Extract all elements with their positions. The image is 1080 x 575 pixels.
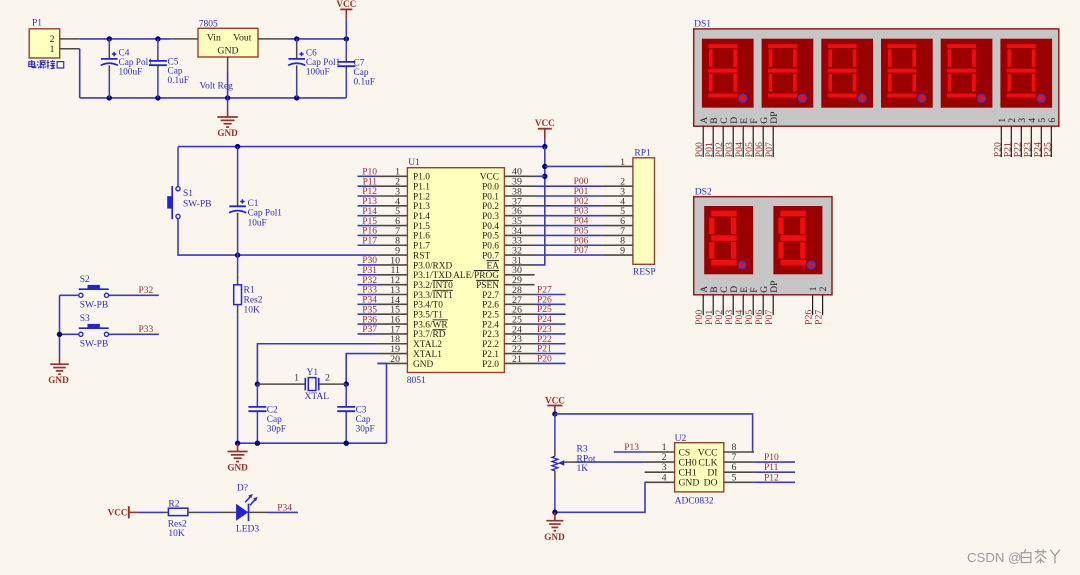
wire and net label P00 (U1 to RP1) — [535, 177, 603, 187]
svg-text:P0.4: P0.4 — [482, 222, 499, 232]
capacitor C6 — [288, 39, 341, 98]
svg-text:P1.3: P1.3 — [413, 202, 430, 212]
svg-text:P27: P27 — [814, 310, 825, 325]
U1 pin 19 XTAL1 — [377, 344, 442, 360]
svg-text:Cap: Cap — [356, 415, 371, 425]
power ground GND of regulator — [217, 98, 238, 138]
U1 pin 12 P3.2/INT0 — [377, 275, 453, 291]
switch S2 SW-PB — [79, 275, 109, 310]
label 电源接口 (power connector, drawn glyphs) — [29, 60, 64, 69]
DS1 digit 3 — [821, 39, 873, 108]
wire VCC to R2 — [138, 511, 163, 513]
svg-text:9: 9 — [620, 246, 625, 257]
svg-text:P1: P1 — [32, 19, 42, 29]
DS1 digit 4 — [881, 39, 933, 108]
power port VCC (LED row) — [108, 506, 138, 518]
wire and net label P32 (U1 left) — [358, 276, 378, 286]
switch S1 SW-PB — [167, 147, 211, 220]
svg-text:P33: P33 — [139, 325, 154, 335]
MCU U1 8051 body — [407, 158, 505, 386]
svg-text:P24: P24 — [537, 315, 552, 325]
wire and net label P12 (U2 right) — [754, 473, 795, 483]
svg-text:P35: P35 — [362, 305, 377, 315]
wire and net label P30 (U1 left) — [358, 256, 378, 266]
junction R1 on crystal ground rail — [235, 441, 240, 446]
svg-text:Cap Pol1: Cap Pol1 — [119, 58, 154, 68]
svg-text:S3: S3 — [80, 314, 90, 324]
svg-text:R3: R3 — [577, 445, 588, 455]
wire VCC to U2 pin8 — [555, 414, 754, 452]
svg-text:P0.2: P0.2 — [482, 202, 499, 212]
svg-text:P23: P23 — [537, 325, 552, 335]
svg-text:P07: P07 — [574, 246, 589, 256]
U1 pin 40 VCC — [480, 167, 535, 183]
DS1 pin A — [699, 117, 710, 157]
capacitor C4 — [101, 39, 154, 98]
svg-text:5: 5 — [732, 472, 737, 483]
wire and net label P17 — [358, 236, 378, 246]
wire and net label P26 (U1 right) — [535, 295, 566, 305]
svg-text:U2: U2 — [675, 434, 687, 444]
svg-text:0.1uF: 0.1uF — [354, 78, 375, 88]
junction C6 on Vout wire — [294, 36, 299, 41]
power port VCC (above U1) — [535, 118, 555, 146]
svg-text:P17: P17 — [362, 236, 377, 246]
svg-text:CSDN @: CSDN @ — [967, 550, 1021, 565]
svg-text:P00: P00 — [574, 177, 589, 187]
U1 pin 7 P1.6 — [377, 226, 430, 242]
junction C4 on ground rail — [107, 95, 112, 100]
DS1 pin 5 — [1037, 118, 1048, 157]
wire and net label P31 (U1 left) — [358, 266, 378, 276]
junction S3 common — [57, 332, 62, 337]
svg-text:SW-PB: SW-PB — [80, 340, 109, 350]
svg-text:P12: P12 — [362, 187, 377, 197]
svg-text:Cap: Cap — [354, 68, 369, 78]
DS1 pin 4 — [1027, 118, 1038, 157]
svg-text:Vin: Vin — [207, 33, 221, 44]
wire and net label P02 (U1 to RP1) — [535, 197, 603, 207]
svg-text:C6: C6 — [306, 48, 317, 58]
wire and net label P34 (U1 left) — [358, 296, 378, 306]
power port VCC (top) — [336, 0, 356, 39]
svg-text:VCC: VCC — [535, 118, 555, 128]
U1 pin 25 P2.4 — [482, 314, 534, 330]
U1 pin 33 P0.6 — [482, 236, 534, 252]
U1 pin 30 ALE/PROG — [453, 265, 534, 281]
DS1 digit 5 — [941, 39, 993, 108]
LED D? LED3 — [236, 483, 268, 534]
U1 pin 1 P1.0 — [377, 167, 430, 183]
U1 pin 8 P1.7 — [377, 236, 430, 252]
junction C3 on crystal ground rail — [344, 441, 349, 446]
svg-text:P1.4: P1.4 — [413, 212, 430, 222]
DS1 pin D — [729, 117, 740, 157]
svg-text:DO: DO — [704, 478, 718, 489]
U1 pin 24 P2.3 — [482, 324, 534, 340]
svg-text:P03: P03 — [574, 207, 589, 217]
wire 7805 GND down to rail — [227, 72, 229, 98]
power ground GND of ADC section — [544, 512, 565, 542]
svg-text:P33: P33 — [362, 286, 377, 296]
svg-text:P10: P10 — [362, 168, 377, 178]
svg-text:DP: DP — [769, 112, 780, 124]
svg-text:P10: P10 — [764, 453, 779, 463]
svg-text:P1.2: P1.2 — [413, 192, 430, 202]
wire VCC riser down to EA pin — [535, 147, 545, 265]
voltage regulator U 7805 — [170, 20, 288, 92]
wire R3 wiper to U2 CH0 — [575, 461, 645, 463]
wire and net label P05 (U1 to RP1) — [535, 226, 603, 236]
svg-text:P1.6: P1.6 — [413, 232, 430, 242]
svg-text:P04: P04 — [574, 217, 589, 227]
svg-text:P12: P12 — [764, 473, 779, 483]
svg-text:R2: R2 — [168, 500, 179, 510]
wire and net label P01 (U1 to RP1) — [535, 187, 603, 197]
wire RP1 pin1 to VCC riser — [545, 165, 603, 167]
U1 pin 14 P3.4/T0 — [377, 295, 443, 311]
capacitor C2 — [248, 384, 286, 443]
svg-text:P20: P20 — [537, 354, 552, 364]
svg-text:P3.1/TXD: P3.1/TXD — [413, 271, 452, 281]
svg-text:P3.4/T0: P3.4/T0 — [413, 301, 443, 311]
svg-text:0.1uF: 0.1uF — [168, 76, 189, 86]
svg-text:VCC: VCC — [545, 395, 565, 405]
svg-text:C7: C7 — [354, 59, 365, 69]
svg-text:30pF: 30pF — [356, 425, 375, 435]
svg-text:P1.7: P1.7 — [413, 242, 430, 252]
svg-text:P1.1: P1.1 — [413, 182, 430, 192]
svg-text:P0.1: P0.1 — [482, 192, 499, 202]
svg-text:P07: P07 — [764, 310, 775, 325]
U1 pin 6 P1.5 — [377, 216, 430, 232]
DS1 pin E — [739, 118, 750, 157]
wire and net label P11 (U2 right) — [754, 463, 795, 473]
svg-text:DS1: DS1 — [694, 19, 711, 29]
U1 pin 38 P0.1 — [482, 186, 534, 202]
svg-text:VCC: VCC — [336, 0, 356, 9]
wire S1 to RST (U1 pin 9) — [178, 219, 377, 256]
svg-text:P07: P07 — [764, 142, 775, 157]
wire and net label P27 (U1 right) — [535, 286, 566, 296]
wire XTAL2 (pin18) to crystal — [257, 344, 377, 384]
svg-text:P2.7: P2.7 — [482, 291, 499, 301]
resistor R2 Res2 10K — [163, 500, 236, 540]
svg-text:P26: P26 — [537, 295, 552, 305]
capacitor C1 — [229, 147, 282, 256]
U1 pin 17 P3.7/RD — [377, 324, 445, 340]
svg-text:Res2: Res2 — [168, 520, 187, 530]
svg-text:XTAL1: XTAL1 — [413, 350, 442, 360]
display DS2 two-digit 7-segment — [694, 187, 832, 294]
svg-text:P3.6/WR: P3.6/WR — [413, 320, 448, 330]
svg-text:P2.2: P2.2 — [482, 340, 499, 350]
svg-text:C4: C4 — [119, 48, 130, 58]
U1 pin 13 P3.3/INT1 — [377, 285, 453, 301]
wire XTAL1 (pin19) to crystal — [346, 354, 377, 385]
svg-text:P31: P31 — [362, 266, 377, 276]
svg-text:10uF: 10uF — [248, 218, 267, 228]
svg-text:P36: P36 — [362, 315, 377, 325]
svg-text:P1.0: P1.0 — [413, 173, 430, 183]
DS2 digit 1 — [704, 206, 753, 274]
wire U1 pin20 GND down — [377, 363, 386, 443]
svg-text:100uF: 100uF — [119, 68, 143, 78]
DS2 pin D — [729, 286, 740, 315]
switch S3 SW-PB — [79, 314, 109, 350]
DS2 pin E — [739, 287, 750, 315]
DS2 pin 2 — [818, 286, 829, 315]
wire 7805 Vout to VCC node — [288, 38, 346, 40]
wire and net label P04 (U1 to RP1) — [535, 217, 603, 227]
svg-text:GND: GND — [413, 360, 434, 370]
DS1 pin 1 — [997, 118, 1008, 157]
ADC U2 ADC0832 — [645, 434, 754, 507]
junction C1 top on VCC rail — [235, 144, 240, 149]
svg-text:8051: 8051 — [407, 376, 426, 386]
svg-text:Res2: Res2 — [244, 296, 263, 306]
U1 pin 16 P3.6/WR — [377, 314, 448, 330]
junction C1/R1 on RST wire — [235, 252, 240, 257]
wire S3 left — [60, 333, 79, 335]
svg-text:P3.2/INT0: P3.2/INT0 — [413, 281, 453, 291]
junction ADC ground node — [552, 510, 557, 515]
svg-text:1: 1 — [294, 372, 299, 383]
svg-text:P13: P13 — [624, 443, 639, 453]
svg-text:P3.7/RD: P3.7/RD — [413, 330, 446, 340]
U1 pin 37 P0.2 — [482, 196, 534, 212]
svg-text:ALE/PROG: ALE/PROG — [453, 271, 499, 281]
wire P1.2 to 7805 Vin — [80, 38, 170, 40]
svg-text:LED3: LED3 — [236, 524, 259, 534]
svg-text:P0.6: P0.6 — [482, 242, 499, 252]
U1 pin 27 P2.6 — [482, 295, 534, 311]
display DS1 six-digit 7-segment — [694, 19, 1059, 126]
wire and net label P10 (U2 right) — [754, 453, 795, 463]
junction C5 on ground rail — [155, 95, 160, 100]
svg-text:P2.5: P2.5 — [482, 311, 499, 321]
svg-text:SW-PB: SW-PB — [80, 300, 109, 310]
svg-text:RESP: RESP — [633, 267, 656, 277]
svg-text:P13: P13 — [362, 197, 377, 207]
U1 pin 20 GND — [377, 354, 433, 370]
svg-text:P0.3: P0.3 — [482, 212, 499, 222]
U1 pin 4 P1.3 — [377, 196, 430, 212]
wire U2 pin4 GND — [555, 482, 645, 512]
wire S2 left — [60, 294, 79, 296]
resistor R1 Res2 10K — [234, 255, 263, 443]
wire and net label P13 (U2 CS) — [614, 443, 645, 453]
power ground GND of S2/S3 — [48, 357, 69, 385]
wire and net label P07 (U1 to RP1) — [535, 246, 603, 256]
svg-text:P2.3: P2.3 — [482, 330, 499, 340]
DS2 pin B — [709, 286, 720, 315]
potentiometer R3 RPot 1K — [552, 414, 596, 512]
svg-text:P22: P22 — [537, 335, 552, 345]
svg-text:P01: P01 — [574, 187, 589, 197]
svg-text:P3.0/RXD: P3.0/RXD — [413, 261, 453, 271]
junction VCC rail / EA riser — [542, 144, 547, 149]
svg-text:P27: P27 — [537, 286, 552, 296]
U1 pin 10 P3.0/RXD — [377, 255, 452, 271]
U1 pin 26 P2.5 — [482, 305, 534, 321]
wire and net label P37 (U1 left) — [358, 325, 378, 335]
svg-text:Y1: Y1 — [307, 368, 319, 378]
wire and net label P21 (U1 right) — [535, 345, 566, 355]
svg-text:10K: 10K — [168, 529, 185, 539]
DS2 pin DP — [769, 281, 780, 316]
U1 pin 9 RST — [377, 246, 430, 262]
wire and net label P12 — [358, 187, 378, 197]
svg-text:21: 21 — [512, 354, 522, 365]
wire and net label P13 — [358, 197, 378, 207]
svg-text:GND: GND — [679, 478, 700, 489]
junction C4 on top wire — [107, 36, 112, 41]
svg-text:GND: GND — [48, 375, 69, 385]
svg-text:100uF: 100uF — [306, 68, 330, 78]
wire and net label P34 (LED) — [268, 503, 298, 513]
svg-text:P2.1: P2.1 — [482, 350, 499, 360]
svg-text:P0.5: P0.5 — [482, 232, 499, 242]
junction RP1 pin1 on riser — [542, 164, 547, 169]
watermark CSDN — [967, 549, 1060, 565]
DS1 digit 6 — [1000, 39, 1052, 108]
svg-text:P3.5/T1: P3.5/T1 — [413, 311, 443, 321]
svg-text:20: 20 — [390, 354, 400, 365]
wire and net label P24 (U1 right) — [535, 315, 566, 325]
junction C2 on crystal ground rail — [255, 441, 260, 446]
junction VCC / C7 node — [344, 36, 349, 41]
U1 pin 21 P2.0 — [482, 354, 534, 370]
svg-text:C2: C2 — [267, 406, 278, 416]
U1 pin 28 P2.7 — [482, 285, 534, 301]
U1 pin 29 PSEN — [476, 275, 535, 291]
svg-text:P34: P34 — [362, 296, 377, 306]
svg-text:SW-PB: SW-PB — [183, 200, 212, 210]
connector P1 — [29, 19, 79, 59]
wire and net label P06 (U1 to RP1) — [535, 236, 603, 246]
svg-text:P2.0: P2.0 — [482, 360, 499, 370]
svg-text:Cap: Cap — [267, 415, 282, 425]
wire VCC rail to S1 — [178, 146, 545, 148]
svg-text:6: 6 — [1047, 118, 1058, 123]
svg-text:10K: 10K — [244, 306, 261, 316]
svg-text:1: 1 — [620, 157, 625, 168]
svg-text:P1.5: P1.5 — [413, 222, 430, 232]
wire P1.1 down to ground rail — [79, 49, 81, 98]
wire and net label P22 (U1 right) — [535, 335, 566, 345]
DS2 pin A — [699, 286, 710, 315]
svg-text:P14: P14 — [362, 207, 377, 217]
svg-text:P0.0: P0.0 — [482, 182, 499, 192]
DS2 digit 2 — [773, 206, 822, 274]
DS1 pin F — [749, 118, 760, 157]
svg-text:P32: P32 — [362, 276, 377, 286]
svg-text:C1: C1 — [248, 199, 259, 209]
svg-text:P34: P34 — [277, 503, 292, 513]
U1 pin 32 P0.7 — [482, 246, 534, 262]
wire and net label P33 (U1 left) — [358, 286, 378, 296]
U1 pin 22 P2.1 — [482, 344, 534, 360]
svg-text:7805: 7805 — [199, 20, 218, 30]
svg-text:C3: C3 — [356, 406, 367, 416]
svg-text:2: 2 — [325, 372, 330, 383]
U1 pin 39 P0.0 — [482, 177, 534, 193]
junction VCC node ADC — [552, 411, 557, 416]
svg-text:1: 1 — [50, 44, 55, 55]
svg-text:P32: P32 — [139, 286, 154, 296]
DS1 pin DP — [769, 112, 780, 157]
ground rail of power section — [80, 97, 347, 99]
U1 pin 35 P0.4 — [482, 216, 534, 232]
wire S2 to net P32 — [109, 286, 159, 296]
U1 pin 2 P1.1 — [377, 177, 430, 193]
wire and net label P35 (U1 left) — [358, 305, 378, 315]
svg-text:P37: P37 — [362, 325, 377, 335]
DS1 pin G — [759, 117, 770, 157]
svg-text:P25: P25 — [1042, 142, 1053, 157]
svg-text:S2: S2 — [80, 275, 90, 285]
svg-text:P3.3/INT1: P3.3/INT1 — [413, 291, 453, 301]
junction 7805 GND on ground rail — [225, 95, 230, 100]
svg-text:P30: P30 — [362, 256, 377, 266]
wire and net label P11 — [358, 177, 378, 187]
svg-text:RP1: RP1 — [634, 148, 651, 158]
U1 pin 3 P1.2 — [377, 186, 430, 202]
svg-text:P2.4: P2.4 — [482, 320, 499, 330]
wire and net label P14 — [358, 207, 378, 217]
U1 pin 31 EA — [486, 255, 534, 271]
svg-text:RST: RST — [413, 251, 430, 261]
svg-text:DP: DP — [769, 281, 780, 293]
capacitor C7 — [337, 39, 375, 98]
svg-text:DS2: DS2 — [695, 187, 712, 197]
wire S3 to net P33 — [109, 325, 159, 335]
svg-text:Vout: Vout — [233, 33, 252, 44]
svg-text:GND: GND — [217, 45, 238, 56]
svg-text:P11: P11 — [764, 463, 779, 473]
svg-text:XTAL2: XTAL2 — [413, 340, 442, 350]
DS1 pin 6 — [1047, 118, 1058, 157]
power ground GND of crystal section — [227, 443, 248, 472]
DS1 pin C — [719, 117, 730, 157]
wire S2-S3 common — [59, 295, 61, 357]
wire and net label P25 (U1 right) — [535, 305, 566, 315]
U1 pin 18 XTAL2 — [377, 334, 442, 350]
svg-text:P16: P16 — [362, 227, 377, 237]
wire and net label P20 (U1 right) — [535, 354, 566, 364]
wire and net label P23 (U1 right) — [535, 325, 566, 335]
junction C5 on top wire — [155, 36, 160, 41]
svg-text:P21: P21 — [537, 345, 552, 355]
DS2 pin C — [719, 286, 730, 315]
svg-text:P0.7: P0.7 — [482, 251, 499, 261]
svg-text:Cap Pol1: Cap Pol1 — [306, 58, 341, 68]
U1 pin 15 P3.5/T1 — [377, 305, 443, 321]
junction crystal left node — [255, 381, 260, 386]
wire U1 pin40 VCC — [535, 175, 545, 177]
svg-text:P05: P05 — [574, 226, 589, 236]
svg-text:S1: S1 — [183, 189, 193, 199]
junction crystal right node — [344, 381, 349, 386]
svg-text:1K: 1K — [577, 464, 589, 474]
DS1 pin 3 — [1017, 118, 1028, 157]
wire and net label P16 — [358, 227, 378, 237]
svg-text:30pF: 30pF — [267, 425, 286, 435]
svg-text:VCC: VCC — [108, 507, 128, 517]
svg-text:P2.6: P2.6 — [482, 301, 499, 311]
svg-text:R1: R1 — [244, 286, 255, 296]
